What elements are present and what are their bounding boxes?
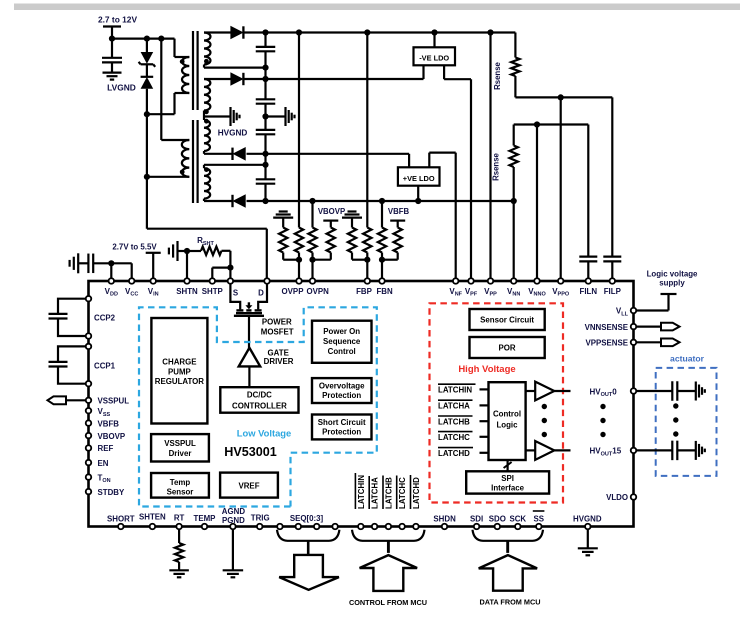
label +VE LDO: [403, 174, 435, 183]
svg-text:OVPN: OVPN: [307, 287, 330, 296]
label SHORT: [107, 515, 135, 524]
phase dot T2 primary: [180, 170, 185, 175]
wire bus d: [264, 134, 266, 178]
svg-text:SCK: SCK: [509, 515, 526, 524]
capacitor actuator 15: [672, 441, 677, 461]
wire LATCHA stub: [480, 404, 489, 406]
top gray strip: [14, 4, 740, 11]
label LATCHC rotated: [397, 476, 408, 510]
ellipsis buffers: [542, 404, 547, 437]
wire rail3: [247, 153, 410, 155]
svg-text:High Voltage: High Voltage: [458, 364, 515, 375]
node rail1 VPP: [487, 29, 493, 35]
ground SHTN bypass: [169, 241, 178, 261]
pin SHTP: [210, 278, 216, 284]
svg-text:POWER: POWER: [262, 317, 292, 326]
wire cap to gnd: [111, 62, 113, 71]
svg-text:Control: Control: [328, 347, 356, 356]
label CONTROL FROM MCU: [349, 598, 427, 607]
svg-text:Rsense: Rsense: [493, 61, 502, 89]
svg-text:LATCHIN: LATCHIN: [438, 386, 472, 395]
wire VNNO feed: [536, 125, 538, 279]
svg-text:DRIVER: DRIVER: [264, 357, 294, 366]
pin SEQ3: [332, 524, 338, 530]
wire HVGND ext: [587, 530, 589, 548]
node SHTP-S: [227, 265, 233, 271]
block overvoltage protection: [312, 378, 372, 403]
svg-text:TEMP: TEMP: [194, 514, 216, 523]
capacitor C4: [256, 179, 276, 183]
pin SEQ0: [277, 524, 283, 530]
node bus 1A: [262, 65, 268, 71]
phase dot T1 primary: [180, 59, 185, 64]
svg-text:Control: Control: [493, 409, 521, 418]
label S: [233, 289, 238, 298]
wire supply rail: [112, 37, 175, 39]
label 2.7V to 5.5V: [112, 243, 157, 252]
wire RT ext: [178, 530, 180, 543]
svg-text:Low Voltage: Low Voltage: [237, 428, 292, 439]
capacitor C3: [256, 130, 276, 134]
label LATCHB bar: [438, 416, 473, 426]
pin FBP: [365, 278, 371, 284]
transformer T1 primary coil: [182, 57, 189, 93]
node OVPN tap: [309, 257, 315, 263]
node bus rail3: [262, 151, 268, 157]
wire R7-R8 bar: [382, 253, 398, 260]
wire primary2 bottom: [147, 176, 189, 178]
transistor Q1 power mosfet: [234, 302, 264, 316]
pin VNNO: [534, 278, 540, 284]
svg-text:Sensor: Sensor: [167, 487, 194, 496]
label HV53001: [224, 445, 277, 459]
pin CCP2a: [86, 296, 92, 302]
wire -VE LDO input stub: [433, 33, 435, 48]
svg-text:DC/DC: DC/DC: [247, 391, 272, 400]
wire primary1 bottom: [147, 93, 189, 114]
wire +HV rail: [244, 31, 515, 33]
diode D1: [231, 26, 243, 38]
block +VE LDO: [398, 167, 440, 185]
capacitor C_FILP: [603, 257, 621, 262]
node FBP tap: [364, 257, 370, 263]
label POWER MOSFET: [261, 317, 294, 336]
svg-text:FILN: FILN: [580, 287, 598, 296]
label VPPO: [552, 287, 570, 298]
wire R5-R6 bar: [352, 253, 367, 260]
node primary2 feed: [158, 36, 164, 42]
brace SEQ group: [277, 530, 339, 541]
label LATCHIN rotated: [355, 473, 366, 509]
pin TEMP: [202, 524, 208, 530]
label GATE DRIVER: [264, 349, 294, 367]
label Low Voltage: [237, 428, 292, 439]
wire FBP divider feed: [366, 33, 368, 228]
node bus hvgnd: [262, 113, 268, 119]
node VDD: [108, 260, 114, 266]
label Control Logic: [493, 409, 521, 429]
svg-text:LATCHB: LATCHB: [438, 417, 470, 426]
T2 secondary winding A: [204, 120, 210, 151]
label LATCHD rotated: [411, 475, 422, 509]
label HVGND: [218, 129, 248, 138]
label VLL: [616, 307, 629, 318]
svg-text:VSSPUL: VSSPUL: [98, 397, 130, 406]
svg-text:VPPSENSE: VPPSENSE: [585, 339, 628, 348]
svg-text:FBN: FBN: [376, 287, 393, 296]
pin SS: [536, 524, 542, 530]
wire cap stub: [111, 39, 113, 58]
capacitor CCP2 loop: [58, 299, 89, 336]
label VPPSENSE: [585, 339, 628, 348]
label Power On Sequence Control: [323, 327, 361, 356]
wire FBN stem: [381, 260, 383, 278]
arrow data from MCU: [479, 555, 537, 591]
block temp sensor: [151, 473, 209, 498]
wire LATCHC stub: [480, 436, 489, 438]
pin TRIG: [257, 524, 263, 530]
label logic voltage supply: [647, 270, 698, 288]
wire Rsense2 rail: [514, 123, 589, 125]
ground above R5: [342, 212, 362, 228]
label VSSPUL Driver: [164, 439, 196, 458]
svg-text:Short Circuit: Short Circuit: [318, 418, 366, 427]
svg-text:TRIG: TRIG: [251, 514, 270, 523]
pin SEQ2: [314, 524, 320, 530]
block POR: [470, 337, 545, 358]
svg-text:DATA FROM MCU: DATA FROM MCU: [479, 598, 540, 607]
ground HVGND-2: [286, 107, 295, 126]
pin VNF: [453, 278, 459, 284]
svg-text:EN: EN: [98, 459, 109, 468]
wire LATCHIN stub: [480, 388, 489, 390]
capacitor C_IN: [102, 58, 122, 63]
pin VPF: [468, 278, 474, 284]
label Temp Sensor: [167, 478, 194, 497]
pin VBFB pin: [86, 420, 92, 426]
arrow control from MCU: [360, 555, 418, 591]
diode D2: [231, 73, 243, 85]
svg-text:SPI: SPI: [501, 474, 514, 483]
tag VNNSENSE: [661, 323, 680, 331]
label Rsense2: [492, 152, 501, 180]
resistor R1: [279, 228, 287, 253]
label SDO: [489, 515, 506, 524]
svg-text:HV53001: HV53001: [224, 445, 277, 459]
resistor Rsense1: [511, 58, 519, 77]
wire hvgnd stub: [266, 115, 285, 117]
svg-text:SEQ[0:3]: SEQ[0:3]: [290, 514, 324, 523]
pin VPPSENSE: [631, 340, 637, 346]
svg-text:PUMP: PUMP: [168, 367, 191, 376]
node SHTN: [184, 248, 190, 254]
wire bus a: [264, 33, 266, 47]
wire FBP stem: [366, 260, 368, 278]
node VNNO rail: [534, 121, 540, 127]
label CCP2: [94, 314, 116, 323]
wire bus c: [264, 104, 266, 130]
label VCC: [125, 287, 138, 298]
terminal VBFB: [390, 221, 405, 228]
label LATCHIN bar: [438, 384, 476, 394]
label VPF: [465, 287, 478, 298]
node clamp top: [144, 36, 150, 42]
wire primary2 top feed: [161, 39, 189, 140]
wire OVPN stem: [311, 260, 313, 278]
ground HVGND pin: [578, 548, 598, 555]
diode D4: [233, 195, 246, 207]
svg-text:STDBY: STDBY: [98, 488, 125, 497]
pin VSS: [86, 408, 92, 414]
block VREF: [220, 473, 278, 498]
svg-text:Rsense: Rsense: [492, 152, 501, 180]
label LATCHC bar: [438, 432, 473, 442]
wire VPP feed: [489, 33, 491, 279]
pin SDO: [495, 524, 501, 530]
node primary2 return: [144, 174, 150, 180]
pin FBN: [379, 278, 385, 284]
label High Voltage: [458, 364, 515, 375]
pin HVOUT0: [631, 388, 637, 394]
svg-text:Interface: Interface: [491, 484, 525, 493]
svg-text:Overvoltage: Overvoltage: [319, 382, 365, 391]
label AGND PGND: [222, 507, 246, 525]
wire sec1A bottom: [204, 65, 266, 68]
terminal VIN: [146, 253, 161, 278]
label HVOUT0: [590, 387, 618, 398]
node VPPO rail: [558, 94, 564, 100]
label OVPP: [282, 287, 304, 296]
wire Rsense1 bottom rail: [515, 76, 612, 97]
pin AGNDPGND: [230, 524, 236, 530]
terminal VBOVP: [323, 221, 338, 228]
node primary1 return: [144, 111, 150, 117]
low voltage dashed boundary: [139, 307, 377, 506]
svg-text:VBFB: VBFB: [388, 207, 410, 216]
svg-text:CCP2: CCP2: [94, 314, 116, 323]
block control logic: [489, 382, 526, 460]
label SHDN: [433, 515, 456, 524]
wire sec1B to HVGND: [204, 111, 230, 121]
pin SHTEN: [150, 524, 156, 530]
pin LATCHC_b: [399, 524, 405, 530]
label LATCHA bar: [438, 400, 473, 410]
wire gnd to SHTN node: [178, 250, 188, 252]
resistor Rsense2: [510, 146, 518, 168]
svg-text:LATCHD: LATCHD: [412, 477, 421, 509]
wire FILN drop: [587, 125, 589, 257]
ground actuator 15: [696, 441, 705, 460]
wire cap0 to gnd: [677, 390, 695, 392]
wire R3-R4 bar: [313, 253, 331, 260]
block VSSPUL driver: [151, 434, 209, 461]
svg-text:AGND: AGND: [222, 507, 246, 516]
svg-text:Protection: Protection: [322, 391, 361, 400]
pin VLDO: [631, 494, 637, 500]
svg-text:Temp: Temp: [170, 478, 191, 487]
node rail1 -VE LDO: [431, 29, 437, 35]
label CHARGE PUMP REGULATOR: [155, 358, 205, 387]
pin RT: [176, 524, 182, 530]
capacitor C_VDD: [88, 254, 93, 273]
wire sec1B top: [204, 78, 231, 80]
block SPI interface: [466, 471, 549, 493]
wire D-line: [147, 229, 267, 281]
svg-text:CONTROLLER: CONTROLLER: [232, 401, 287, 410]
resistor R8: [394, 228, 402, 253]
svg-text:REF: REF: [98, 444, 114, 453]
pin FILP: [610, 278, 616, 284]
wire primary1 top feed: [175, 39, 190, 57]
pin CCP1b: [86, 381, 92, 387]
wire VDD stub: [110, 263, 112, 278]
label SCK: [509, 515, 526, 524]
label VDD: [105, 287, 118, 298]
svg-text:FBP: FBP: [356, 287, 372, 296]
label FBN: [376, 287, 393, 296]
phase dot sec1B: [204, 109, 209, 114]
capacitor C_CP1: [49, 362, 68, 367]
label CCP1: [94, 362, 116, 371]
label VBOVP pin: [98, 432, 126, 441]
pin SDI: [474, 524, 480, 530]
tag VPPSENSE: [661, 339, 680, 347]
label Rsense1: [493, 61, 502, 89]
svg-text:Logic: Logic: [496, 420, 518, 429]
svg-text:LATCHA: LATCHA: [371, 477, 380, 509]
wire clamp to D-line: [146, 89, 148, 229]
label Sensor Circuit: [480, 316, 534, 325]
wire FILN stub: [587, 261, 589, 278]
label VNN: [507, 287, 520, 298]
op-amp output buffer 0: [535, 382, 554, 401]
pin LATCHA_b: [372, 524, 378, 530]
svg-text:SHTEN: SHTEN: [139, 513, 166, 522]
node rail1 FBP-div: [364, 29, 370, 35]
svg-text:Logic voltage: Logic voltage: [647, 270, 698, 279]
wire LATCH brace stem: [387, 541, 390, 553]
svg-text:CCP1: CCP1: [94, 362, 116, 371]
capacitor C_FILN: [579, 257, 597, 262]
node FBN rail4: [379, 198, 385, 204]
label FILN: [580, 287, 598, 296]
wire sec1A top: [204, 31, 231, 33]
supply terminal bar: [103, 27, 121, 39]
label TON: [98, 473, 111, 484]
core T1: [193, 31, 198, 110]
pin D: [264, 278, 270, 284]
pin REF: [86, 445, 92, 451]
wire VPPO feed: [560, 97, 562, 278]
label VIN: [148, 287, 159, 298]
pin HVOUT15: [631, 448, 637, 454]
pin VSSPUL: [86, 398, 92, 404]
svg-text:HVGND: HVGND: [573, 515, 602, 524]
ground AGND: [223, 570, 244, 577]
terminal logic supply: [661, 294, 677, 311]
wire S stub: [229, 268, 231, 278]
pin TON: [86, 474, 92, 480]
svg-text:CHARGE: CHARGE: [162, 358, 196, 367]
label VLDO: [606, 493, 628, 502]
pin LATCHIN_b: [358, 524, 364, 530]
wire FILP stub: [611, 261, 613, 278]
wire -HV rail: [244, 78, 424, 80]
svg-text:FILP: FILP: [604, 287, 621, 296]
pin LATCHB_b: [386, 524, 392, 530]
wire HVOUT0 ext: [634, 390, 673, 392]
pin VNN: [511, 278, 517, 284]
label VSS: [98, 407, 111, 418]
label HVGND pin: [573, 515, 602, 524]
pin CCP1a: [86, 344, 92, 350]
svg-text:Power On: Power On: [323, 327, 360, 336]
node VNN rail4: [511, 198, 517, 204]
svg-text:VBOVP: VBOVP: [318, 207, 345, 216]
label TEMP: [194, 514, 216, 523]
label OVPN: [307, 287, 330, 296]
wire gate: [248, 316, 250, 348]
pin STDBY: [86, 489, 92, 495]
node OVPP tap: [296, 257, 302, 263]
label D: [258, 289, 264, 298]
capacitor C_CP2: [49, 314, 68, 319]
phase dot sec2B: [204, 167, 209, 172]
svg-text:SS: SS: [534, 515, 545, 524]
pin SHTN: [184, 278, 190, 284]
node OVPN rail4: [309, 198, 315, 204]
wire R7 top: [381, 201, 383, 228]
svg-text:LVGND: LVGND: [107, 83, 136, 93]
svg-text:SHORT: SHORT: [107, 515, 135, 524]
label SHTEN: [139, 513, 166, 522]
block power on sequence control: [312, 321, 372, 363]
wire gnd to cap: [78, 262, 88, 264]
pin SHORT: [118, 524, 124, 530]
wire VSSPUL tag: [66, 399, 89, 401]
wire buf0 in: [526, 390, 536, 392]
wire OVPP divider feed: [298, 33, 300, 228]
wire buf15 in: [526, 449, 536, 451]
wire clamp upper: [146, 39, 148, 52]
label VNNSENSE: [585, 323, 628, 332]
pin VNNSENSE: [631, 324, 637, 330]
label DATA FROM MCU: [479, 598, 540, 607]
ellipsis HVOUT labels: [600, 404, 605, 437]
ground above R1: [273, 212, 293, 228]
label SHTP: [202, 287, 223, 296]
wire sec2A bottom: [204, 151, 233, 154]
wire AGND ext: [232, 530, 234, 570]
wire rail4 common: [247, 200, 515, 202]
pin HVGND: [585, 524, 591, 530]
svg-text:VBOVP: VBOVP: [98, 432, 126, 441]
pin EN: [86, 460, 92, 466]
pin LATCHD_b: [413, 524, 419, 530]
svg-text:SDO: SDO: [489, 515, 506, 524]
pin VPP: [488, 278, 494, 284]
wire SHTN stub: [186, 251, 188, 278]
label EN: [98, 459, 109, 468]
label SEQ[0:3]: [290, 514, 324, 523]
pin SHDN: [442, 524, 448, 530]
svg-text:LATCHC: LATCHC: [438, 433, 470, 442]
label LATCHA rotated: [369, 476, 380, 509]
pin FILN: [586, 278, 592, 284]
wire R3 top: [311, 201, 313, 228]
wire SPI brace stem: [506, 541, 509, 553]
resistor R6: [363, 228, 371, 253]
